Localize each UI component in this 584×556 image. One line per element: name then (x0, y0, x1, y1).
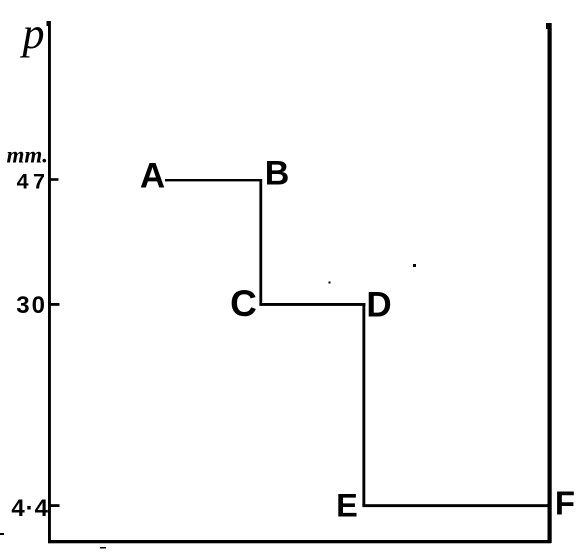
svg-text:mm.: mm. (6, 143, 48, 168)
svg-text:47: 47 (17, 170, 50, 194)
svg-text:A: A (140, 157, 165, 196)
svg-text:p: p (20, 9, 45, 58)
svg-text:C: C (230, 283, 257, 324)
svg-text:F: F (555, 485, 575, 522)
svg-text:30: 30 (16, 292, 47, 319)
svg-text:B: B (265, 155, 290, 193)
svg-text:4·4: 4·4 (11, 495, 49, 522)
svg-text:E: E (336, 488, 358, 524)
svg-text:D: D (366, 286, 391, 325)
